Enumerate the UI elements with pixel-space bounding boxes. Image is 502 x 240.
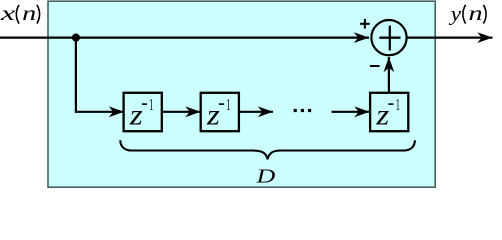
underbrace spanning delay line — [120, 140, 415, 159]
minus sign label (feedback polarity) — [370, 65, 380, 67]
background panel (shaded system box) — [48, 1, 435, 187]
wire delay1 to delay2 — [162, 111, 201, 113]
svg-text:1: 1 — [226, 95, 230, 114]
ellipsis dots — [294, 109, 312, 112]
output label y(n) — [449, 2, 486, 25]
delay block z^-1 #1 — [124, 93, 162, 131]
adder (summing junction circle) — [371, 20, 406, 55]
delay block z^-1 #2 — [201, 93, 239, 131]
input wire (x=0 to adder) — [0, 36, 369, 38]
svg-text:n: n — [469, 2, 483, 25]
input label x(n) — [0, 1, 40, 25]
wire ellipsis to delay3 — [332, 111, 370, 113]
svg-text:y: y — [449, 3, 462, 25]
output wire (adder to y(n)) — [407, 36, 493, 38]
svg-text:1: 1 — [396, 95, 400, 114]
svg-text:z: z — [206, 98, 220, 131]
delay block z^-1 #3 — [370, 93, 408, 131]
svg-text:x: x — [0, 1, 15, 24]
wire delay2 to ellipsis — [239, 111, 273, 113]
svg-text:z: z — [129, 98, 143, 131]
svg-text:n: n — [22, 2, 36, 25]
adder plus cross — [379, 26, 400, 51]
svg-text:1: 1 — [149, 95, 153, 114]
svg-text:z: z — [375, 98, 389, 131]
branch wire down from node — [76, 38, 124, 112]
wire delay3 up to adder (subtracted input) — [388, 57, 390, 93]
node (pickoff junction dot) — [72, 34, 80, 42]
svg-text:D: D — [255, 165, 275, 188]
plus sign label (input polarity) — [360, 19, 370, 29]
